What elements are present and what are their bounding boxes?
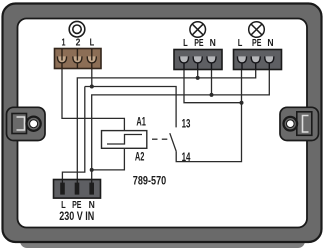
wire: lamp1 PE stub xyxy=(197,70,199,78)
svg-text:N: N xyxy=(210,37,216,49)
svg-text:2: 2 xyxy=(76,37,81,49)
terminal block X3: lamp 2 output L PE N (gray) xyxy=(234,50,282,70)
wire: PE riser and PE rail to lamp blocks xyxy=(77,70,255,180)
svg-text:13: 13 xyxy=(182,117,191,131)
node: L junction at button feed xyxy=(90,85,94,89)
svg-text:N: N xyxy=(267,37,273,49)
relay K1 coil (impulse switch 789-570) xyxy=(102,131,147,149)
node: switched L junction xyxy=(240,101,244,105)
svg-text:L: L xyxy=(238,37,243,49)
wire: switched L rail lamp1 xyxy=(184,70,242,103)
svg-text:PE: PE xyxy=(194,37,203,49)
clamp 2 xyxy=(73,56,82,63)
wire: L input riser (230V L up to L node) xyxy=(62,87,84,180)
wire: relay coil A2 to N xyxy=(92,148,125,170)
node: N junction lamp1 xyxy=(210,93,214,97)
wire: N riser and N rail to lamp blocks xyxy=(92,70,270,180)
mounting tab left xyxy=(7,107,46,140)
label L PE N (input) xyxy=(61,199,95,211)
terminal block X1: push-button terminals 1 2 L (brown) xyxy=(55,49,102,69)
svg-text:789-570: 789-570 xyxy=(133,173,167,187)
push-button symbol S1 (double circle) xyxy=(69,21,85,37)
svg-text:14: 14 xyxy=(182,150,191,164)
svg-text:230 V IN: 230 V IN xyxy=(59,209,94,223)
svg-text:L: L xyxy=(90,37,95,49)
enclosure bottom shadow xyxy=(20,234,305,248)
wire: terminal 1 to relay coil A1 xyxy=(62,69,124,131)
terminal block X4: 230V input L PE N xyxy=(54,180,101,199)
terminal block X2: lamp 1 output L PE N (gray) xyxy=(174,50,222,70)
svg-text:A2: A2 xyxy=(135,149,145,163)
clamp L xyxy=(87,56,96,63)
relay actuation dashed link xyxy=(152,138,167,140)
label L PE N (lamp 1) xyxy=(183,37,216,49)
mounting tab right xyxy=(280,107,319,140)
clamp 1 xyxy=(57,56,66,63)
label 1 2 L xyxy=(62,37,95,49)
label L PE N (lamp 2) xyxy=(238,37,274,49)
wire: terminal L (button feed) down to L node xyxy=(91,69,93,87)
enclosure inner opening xyxy=(18,19,308,228)
svg-text:PE: PE xyxy=(252,37,261,49)
wire: lamp1 N stub xyxy=(211,70,213,95)
svg-text:L: L xyxy=(183,37,188,49)
svg-text:1: 1 xyxy=(62,37,66,49)
relay contact arm 13-14 xyxy=(170,133,176,151)
wire: contact 14 to lamp L rail xyxy=(176,70,241,162)
node: N junction at A2 xyxy=(90,168,94,172)
svg-text:A1: A1 xyxy=(136,115,146,129)
node: PE junction lamp1 xyxy=(196,76,200,80)
lamp E1 (circle with cross) xyxy=(190,22,206,38)
lamp E2 (circle with cross) xyxy=(249,22,265,38)
wire: L rail to contact 13 xyxy=(85,87,176,128)
